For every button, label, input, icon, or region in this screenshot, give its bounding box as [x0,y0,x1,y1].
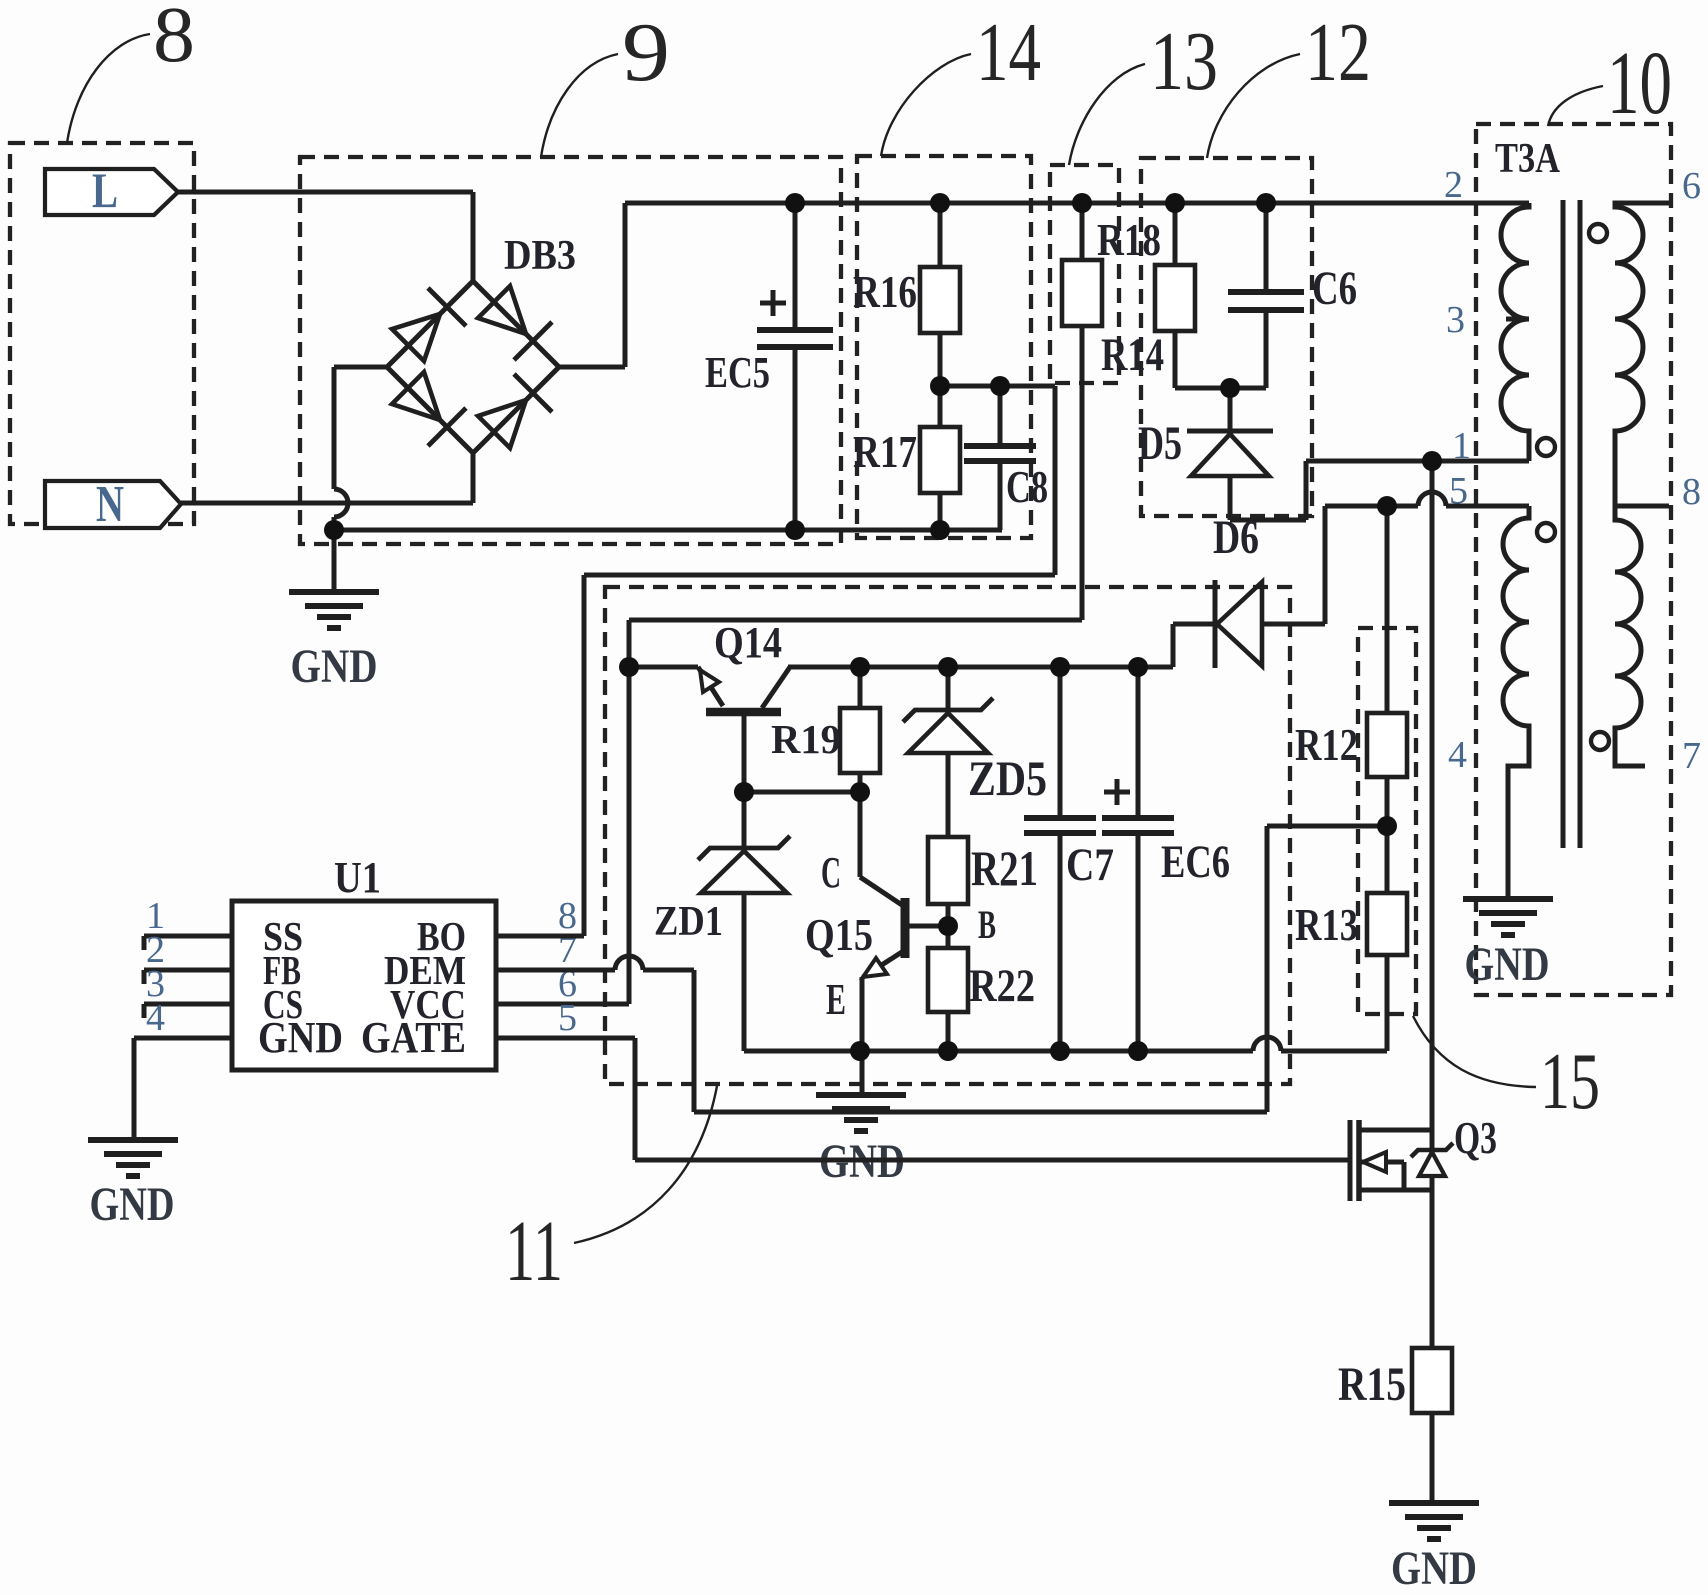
svg-text:7: 7 [1682,735,1701,777]
svg-text:GND: GND [1391,1542,1477,1595]
svg-text:R15: R15 [1338,1358,1406,1411]
svg-text:12: 12 [1305,6,1371,99]
svg-text:C: C [821,848,841,897]
svg-text:R14: R14 [1101,329,1164,381]
svg-text:U1: U1 [334,853,381,902]
svg-text:15: 15 [1540,1038,1600,1126]
svg-text:R16: R16 [853,267,917,317]
svg-text:T3A: T3A [1495,136,1561,182]
svg-text:11: 11 [505,1202,563,1299]
svg-text:13: 13 [1150,15,1218,108]
svg-text:GND: GND [258,1013,343,1062]
svg-text:R13: R13 [1295,900,1358,950]
svg-text:EC6: EC6 [1161,836,1230,888]
svg-text:EC5: EC5 [705,348,770,397]
svg-text:GND: GND [291,640,378,693]
svg-text:8: 8 [153,0,195,79]
svg-text:1: 1 [1452,425,1471,467]
svg-text:DB3: DB3 [504,233,576,279]
svg-text:5: 5 [1449,470,1468,512]
svg-text:GND: GND [1465,938,1550,991]
svg-text:Q3: Q3 [1454,1113,1497,1163]
svg-text:Q14: Q14 [714,618,782,667]
svg-text:R18: R18 [1097,215,1161,265]
svg-text:GATE: GATE [361,1013,466,1062]
svg-text:C6: C6 [1312,262,1357,315]
svg-text:R19: R19 [771,716,841,762]
svg-text:8: 8 [1682,471,1701,513]
svg-text:14: 14 [976,6,1041,99]
svg-text:10: 10 [1607,34,1672,133]
svg-text:3: 3 [1446,299,1465,341]
svg-text:R22: R22 [969,960,1035,1012]
svg-text:9: 9 [622,6,670,99]
svg-text:L: L [92,162,118,218]
svg-text:R17: R17 [853,427,917,477]
svg-text:Q15: Q15 [805,910,873,960]
svg-text:D5: D5 [1138,417,1182,470]
svg-text:R21: R21 [971,840,1038,896]
svg-text:ZD1: ZD1 [654,899,723,945]
svg-text:5: 5 [558,997,577,1039]
svg-text:D6: D6 [1213,511,1259,564]
svg-text:B: B [978,902,996,947]
svg-text:GND: GND [90,1178,175,1231]
svg-text:C8: C8 [1006,462,1048,512]
svg-text:6: 6 [1682,165,1701,207]
svg-text:C7: C7 [1066,839,1114,891]
svg-text:ZD5: ZD5 [968,750,1047,806]
svg-text:E: E [826,975,846,1024]
svg-text:2: 2 [1444,164,1463,206]
svg-text:R12: R12 [1295,720,1358,770]
svg-text:N: N [96,476,124,533]
svg-text:4: 4 [1448,734,1467,776]
svg-text:4: 4 [146,997,165,1039]
